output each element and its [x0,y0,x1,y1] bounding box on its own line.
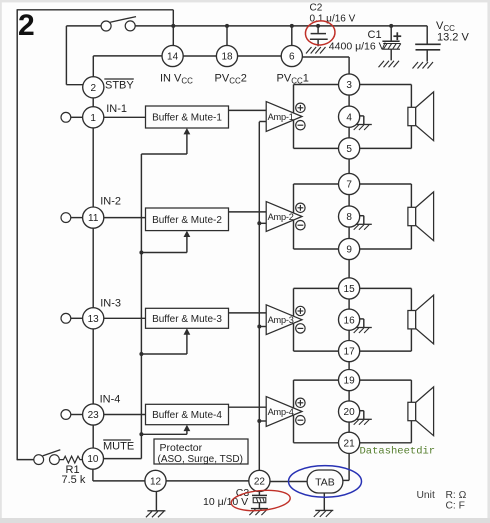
svg-text:IN-4: IN-4 [100,393,121,405]
svg-text:Unit: Unit [417,490,435,501]
svg-text:11: 11 [88,213,99,224]
svg-text:19: 19 [344,376,356,387]
svg-text:17: 17 [344,347,356,358]
svg-text:Amp-2: Amp-2 [268,212,294,222]
svg-text:12: 12 [150,477,162,488]
svg-text:Amp-1: Amp-1 [268,112,294,122]
svg-text:10 μ/10 V: 10 μ/10 V [203,496,248,508]
svg-text:13.2 V: 13.2 V [437,32,469,44]
svg-text:7.5 k: 7.5 k [62,474,86,486]
svg-text:1: 1 [90,113,96,124]
svg-text:STBY: STBY [105,79,134,91]
svg-text:Amp-4: Amp-4 [268,407,294,417]
svg-text:Buffer & Mute-3: Buffer & Mute-3 [152,314,222,325]
svg-text:2: 2 [91,83,97,94]
svg-text:5: 5 [346,144,352,155]
svg-text:C2: C2 [310,3,323,14]
svg-text:R: Ω: R: Ω [446,490,467,501]
svg-text:Buffer & Mute-4: Buffer & Mute-4 [152,410,222,421]
svg-text:Buffer & Mute-1: Buffer & Mute-1 [152,113,222,124]
svg-text:23: 23 [88,410,100,421]
svg-text:9: 9 [346,245,352,256]
svg-text:Amp-3: Amp-3 [268,315,294,325]
svg-text:0.1 μ/16 V: 0.1 μ/16 V [310,14,356,25]
svg-text:14: 14 [167,52,179,63]
svg-text:C: F: C: F [446,500,465,511]
svg-text:22: 22 [254,477,266,488]
svg-text:4400 μ/16 V: 4400 μ/16 V [329,41,386,53]
svg-text:6: 6 [289,52,295,63]
svg-text:16: 16 [344,315,356,326]
svg-text:10: 10 [87,454,99,465]
svg-text:2: 2 [18,9,35,42]
svg-text:7: 7 [346,180,352,191]
svg-text:MUTE: MUTE [103,440,134,452]
svg-text:15: 15 [344,284,356,295]
svg-text:20: 20 [344,407,356,418]
svg-text:Datasheetdir: Datasheetdir [360,445,436,457]
svg-text:C1: C1 [368,29,382,41]
svg-text:8: 8 [346,212,352,223]
svg-text:IN-2: IN-2 [100,195,121,207]
svg-text:18: 18 [221,52,233,63]
svg-text:IN-3: IN-3 [100,297,121,309]
svg-text:Buffer & Mute-2: Buffer & Mute-2 [152,215,222,226]
svg-text:21: 21 [344,438,356,449]
svg-text:(ASO, Surge, TSD): (ASO, Surge, TSD) [158,454,243,465]
svg-text:TAB: TAB [315,476,335,488]
svg-text:4: 4 [346,112,352,123]
svg-text:3: 3 [346,80,352,91]
svg-text:Protector: Protector [160,442,203,454]
svg-text:13: 13 [88,314,100,325]
svg-text:IN-1: IN-1 [106,103,127,115]
